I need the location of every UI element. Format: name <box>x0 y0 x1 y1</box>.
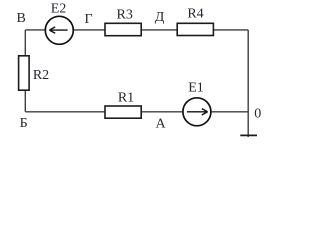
svg-text:Б: Б <box>20 116 28 131</box>
svg-text:R2: R2 <box>33 68 49 83</box>
wire top: node В to top-right corner <box>25 29 248 31</box>
svg-text:А: А <box>156 117 167 132</box>
svg-text:Г: Г <box>84 12 92 27</box>
svg-text:Е2: Е2 <box>51 1 67 16</box>
svg-text:В: В <box>17 11 26 26</box>
ground <box>240 134 257 136</box>
svg-text:R4: R4 <box>187 7 203 22</box>
svg-text:0: 0 <box>254 107 261 122</box>
svg-text:Д: Д <box>155 10 165 25</box>
svg-text:R3: R3 <box>117 8 133 23</box>
source E2 <box>45 16 73 44</box>
wire left vertical: В to Б through R2 <box>24 30 26 112</box>
source E1 <box>183 98 211 126</box>
resistor R1 <box>105 106 141 118</box>
svg-text:R1: R1 <box>118 91 134 106</box>
resistor R2 <box>19 56 30 90</box>
wire bottom: node Б to node 0 <box>25 111 248 113</box>
wire right vertical <box>247 30 249 137</box>
resistor R3 <box>105 23 141 35</box>
resistor R4 <box>177 23 213 35</box>
svg-text:Е1: Е1 <box>188 81 204 96</box>
